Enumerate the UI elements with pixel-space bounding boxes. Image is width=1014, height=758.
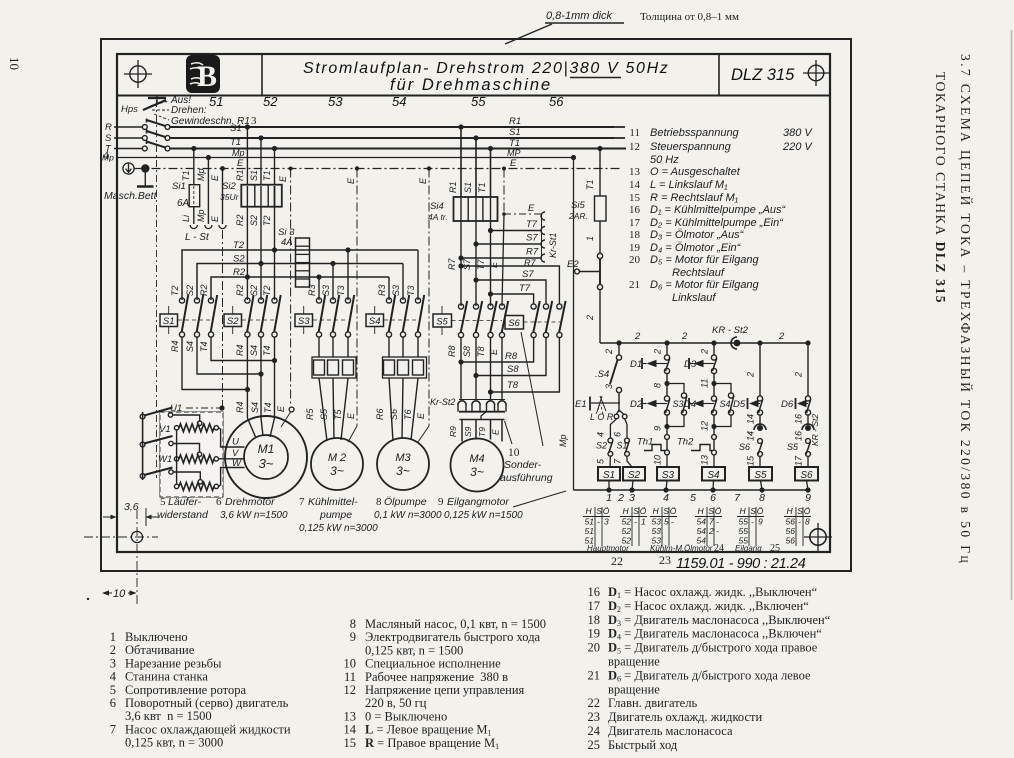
svg-text:S8: S8 [462,346,472,357]
coil S4 to bus [712,481,715,491]
svg-text:17: 17 [629,217,641,229]
contactor coil box S4 (power section) [366,314,384,327]
contactor coil box S3 (power section) [295,314,313,327]
svg-text:1159.01 - 990 : 21.24: 1159.01 - 990 : 21.24 [676,556,806,572]
svg-text:S: S [797,506,803,516]
E drop right of Si4 [502,167,506,171]
svg-text:S7: S7 [522,269,534,280]
svg-text:M1: M1 [258,442,275,456]
control return bus to Mp [574,489,809,491]
svg-text:Станина станка: Станина станка [125,670,208,684]
svg-text:E: E [346,412,356,419]
contactor coil box S2 (power section) [224,314,242,327]
svg-text:S: S [750,506,756,516]
svg-text:.S4: .S4 [595,369,609,380]
svg-text:1: 1 [585,236,595,241]
rotor resistor 2 [179,455,214,463]
svg-text:S9: S9 [463,426,473,437]
svg-text:25: 25 [588,738,601,752]
svg-text:9: 9 [653,426,663,431]
svg-text:W1: W1 [158,454,172,465]
contact S1 pole at x=197 [194,298,199,303]
svg-text:2: 2 [681,331,688,342]
svg-text:Двигатель охлажд. жидкости: Двигатель охлажд. жидкости [608,710,762,724]
svg-text:E: E [276,405,286,412]
svg-text:S: S [663,506,669,516]
wires Si4 outputs down [460,221,462,306]
svg-text:16: 16 [588,585,601,599]
dashed actuator line S6 [524,321,561,323]
motor M3 (Oelpumpe) [377,438,429,490]
registration mark top-left [130,66,146,82]
wires overload to M3 [389,378,393,441]
contact S3 pole at x=333 [330,298,335,303]
svg-text:8: 8 [350,617,356,631]
svg-text:52: 52 [622,526,632,536]
svg-text:1: 1 [641,517,646,527]
LOR contacts [614,414,619,419]
svg-text:51: 51 [585,526,595,536]
svg-text:H: H [787,506,794,516]
thermal element squiggle Th1 [644,445,665,451]
svg-text:S1: S1 [230,123,242,134]
svg-text:T9: T9 [477,427,487,437]
svg-text:S2: S2 [596,441,607,451]
wire T1 down to Si2 [272,146,277,151]
svg-text:R8: R8 [505,351,518,362]
svg-text:S3: S3 [321,285,331,296]
bus R1 [170,126,614,128]
svg-text:D2: D2 [630,399,643,410]
svg-text:D3: D3 [684,359,697,370]
wire Si1 to L-St [193,207,195,224]
svg-text:2: 2 [110,643,116,657]
svg-text:56: 56 [786,526,796,536]
svg-text:16: 16 [794,431,804,441]
bus T8 from S6 [491,338,560,392]
svg-text:0,8-1mm dick: 0,8-1mm dick [546,10,613,22]
logo B mark [186,55,220,93]
wire to coil S2 [627,456,632,467]
junction dot column D3 [711,340,716,345]
Mp drop column [571,155,576,160]
contact S6 pole at x=559.4 [557,304,562,309]
wires buses to contactor S3 [347,250,349,300]
ground MaschBett [144,169,146,187]
bus Mp [170,157,574,159]
fuse block Si2 [241,185,281,207]
E branch to Kr-St1 [502,212,506,216]
wire LOR-L down [610,419,616,438]
coil S6 to bus [807,481,809,491]
svg-text:D₅ = Motor für Eilgang: D₅ = Motor für Eilgang [650,254,760,266]
svg-text:0 = Выключено: 0 = Выключено [365,709,447,723]
svg-text:6: 6 [613,432,623,437]
svg-text:D5: D5 [733,399,746,410]
svg-text:-: - [798,517,801,527]
svg-text:9: 9 [805,492,811,504]
svg-text:Электродвигатель быстрого хода: Электродвигатель быстрого хода [365,630,541,644]
svg-text:вращение: вращение [608,655,660,669]
svg-text:S8: S8 [507,364,519,375]
svg-text:Mp: Mp [102,153,114,163]
wire switch to control bus [599,290,601,343]
wire resistor 2 to V [219,458,245,460]
connector Kr-St2 [459,399,505,401]
svg-text:Steuerspannung: Steuerspannung [650,141,732,153]
svg-text:R1: R1 [448,181,458,193]
svg-text:8: 8 [376,496,382,508]
rotor resistor 1 [179,424,214,432]
svg-text:3.7 СХЕМА ЦЕПЕЙ ТОКА – ТРЕХФАЗ: 3.7 СХЕМА ЦЕПЕЙ ТОКА – ТРЕХФАЗНЫЙ ТОК 22… [958,54,973,565]
svg-text:T2: T2 [262,285,272,296]
svg-text:S6: S6 [508,318,520,329]
svg-text:18: 18 [629,229,641,241]
wires Si2 down to contactor S2 [246,207,248,300]
svg-text:4A: 4A [281,237,293,248]
svg-text:3,6: 3,6 [124,501,139,513]
wires S2 bottom down to motor M1 [246,337,248,418]
leader from note to Eilgangmotor [513,491,566,507]
contact S1 pole at x=211 [208,298,213,303]
svg-text:53: 53 [652,526,662,536]
svg-text:Betriebsspannung: Betriebsspannung [650,127,740,139]
svg-text:3~: 3~ [330,464,344,478]
svg-text:ausführung: ausführung [500,472,553,484]
svg-text:2: 2 [604,349,614,355]
svg-text:Ö: Ö [715,506,722,516]
svg-text:3: 3 [110,656,116,670]
contactor coil box S1 (power section) [160,314,178,327]
svg-text:Сопротивление ротора: Сопротивление ротора [125,683,246,697]
rotor switch contact 3 [140,474,145,479]
svg-text:T1: T1 [262,170,272,181]
svg-text:-: - [671,517,674,527]
svg-text:R = Rechtslauf M₁: R = Rechtslauf M₁ [650,192,739,204]
svg-text:R5: R5 [305,408,315,420]
relay contact KR at D6 [802,424,814,430]
coil box S5 [749,467,772,481]
svg-text:S: S [708,506,714,516]
svg-text:R2: R2 [235,214,245,226]
switch blade S [146,130,148,134]
svg-text:Выключено: Выключено [125,630,188,644]
fuse Si3 ladder [296,238,310,287]
svg-text:Eilgang: Eilgang [735,544,762,553]
svg-text:E: E [346,177,356,184]
svg-text:O = Ausgeschaltet: O = Ausgeschaltet [650,166,741,178]
wire Si5 to switch E2 [599,221,601,253]
svg-text:R1: R1 [509,116,521,127]
wire LOR-R down [625,419,627,438]
coil S1 to bus [608,481,610,491]
svg-text:Mp: Mp [196,168,206,181]
E drop to M3 [427,166,431,170]
svg-text:13: 13 [344,709,357,723]
svg-text:55: 55 [739,517,749,527]
svg-text:4: 4 [110,670,117,684]
jog from Kr-St2 to terminal comb [481,412,486,420]
svg-text:S1: S1 [463,182,473,193]
svg-text:für Drehmaschine: für Drehmaschine [390,76,552,94]
svg-text:54: 54 [697,517,707,527]
svg-text:вращение: вращение [608,682,660,696]
svg-text:8: 8 [805,517,810,527]
svg-text:Rechtslauf: Rechtslauf [672,267,725,279]
svg-text:Ölmotor: Ölmotor [684,544,713,553]
svg-text:E: E [416,412,426,419]
rotor switch contact 1 [140,414,145,419]
svg-text:380 V: 380 V [783,127,813,139]
svg-text:Масляный насос, 0,1 квт, n = 1: Масляный насос, 0,1 квт, n = 1500 [365,617,546,631]
svg-text:2AR.: 2AR. [568,211,588,221]
svg-text:54: 54 [697,526,707,536]
svg-text:Li: Li [181,214,191,222]
svg-text:R7: R7 [447,258,457,270]
svg-text:50 Hz: 50 Hz [650,154,679,166]
bus T1 [170,147,626,149]
svg-text:5: 5 [160,496,166,508]
svg-text:T4: T4 [199,341,209,352]
svg-text:DLZ 315: DLZ 315 [731,66,795,84]
svg-text:S3: S3 [298,316,310,327]
svg-text:14: 14 [629,179,641,191]
wire resistor 1 to U [219,428,245,447]
motor M4 (Eilgangmotor) [451,439,504,492]
svg-text:S4: S4 [720,399,731,409]
svg-text:55: 55 [471,94,486,109]
bus S8 from S6 [476,338,546,376]
svg-text:Mp: Mp [196,209,206,222]
coil box S1 [598,467,620,481]
leader line from note to frame [505,24,552,44]
rotor resistor dashed box [160,412,223,497]
svg-text:2: 2 [585,315,595,321]
svg-text:S5: S5 [436,317,448,328]
mechanical link dash line [156,100,158,250]
svg-text:Masch.Bett: Masch.Bett [104,190,158,202]
svg-text:5: 5 [110,683,116,697]
inner drawing frame [117,54,830,552]
svg-text:14: 14 [344,723,357,737]
svg-text:D₄ = Ölmotor „Ein“: D₄ = Ölmotor „Ein“ [650,242,742,254]
wires overload to M2 [319,378,327,441]
contact S5 pole at x=502 [499,304,504,309]
svg-text:-: - [716,526,719,536]
svg-text:S4: S4 [250,402,260,413]
svg-text:Ö: Ö [603,506,610,516]
svg-text:0,125 kW n=1500: 0,125 kW n=1500 [444,510,523,521]
rotor short-circuit switch bar [142,412,144,480]
wire to coil below D6 [807,457,809,467]
svg-text:Drehmotor: Drehmotor [225,496,275,508]
junction dot column D5 [757,340,762,345]
svg-text:S4: S4 [185,341,195,352]
svg-text:17: 17 [588,599,601,613]
svg-text:D₂ = Kühlmittelpumpe „Ein“: D₂ = Kühlmittelpumpe „Ein“ [650,217,784,229]
svg-text:S6: S6 [739,442,750,452]
tap S7 to Kr-St1 [473,241,478,246]
svg-text:M4: M4 [469,453,484,465]
svg-text:56: 56 [549,94,564,109]
svg-text:S1: S1 [603,470,615,481]
svg-text:E: E [491,429,501,435]
svg-text:-: - [716,517,719,527]
main switch Hps handle [148,97,166,99]
svg-text:V1: V1 [159,424,171,435]
svg-text:R7: R7 [524,258,536,268]
svg-text:T3: T3 [336,285,346,296]
svg-text:S6: S6 [800,470,813,481]
svg-text:25: 25 [770,543,780,554]
wire S4 from S1 [197,337,261,374]
svg-text:Läufer-: Läufer- [168,496,202,508]
svg-text:Поворотный (серво) двигатель: Поворотный (серво) двигатель [125,696,289,710]
svg-text:T5: T5 [333,409,343,420]
motor M2 (Kuehlmittelpumpe) [311,438,363,490]
svg-text:24: 24 [588,724,601,738]
svg-text:Специальное исполнение: Специальное исполнение [365,657,501,671]
svg-text:11: 11 [700,379,710,388]
svg-text:R2: R2 [235,284,245,296]
svg-text:2: 2 [617,492,624,504]
svg-text:S: S [596,506,602,516]
svg-text:S3: S3 [391,285,401,296]
svg-text:5: 5 [690,492,696,504]
contact S3 pole at x=319 [316,298,321,303]
svg-text:S1: S1 [163,316,175,327]
wire to coil below Th2 [713,455,715,467]
svg-text:D₆ = Motor für Eilgang: D₆ = Motor für Eilgang [650,279,760,291]
center mark circle [131,531,142,542]
svg-text:R2: R2 [199,284,209,296]
svg-text:S3: S3 [673,399,684,409]
dashed actuator line S4 [384,319,418,321]
svg-text:E: E [489,261,499,268]
svg-text:20: 20 [588,641,601,655]
contact S4 pole at x=403 [400,298,405,303]
svg-text:Быстрый ход: Быстрый ход [608,738,678,752]
svg-text:19: 19 [588,627,601,641]
svg-text:Обтачивание: Обтачивание [125,643,195,657]
svg-text:R8: R8 [447,345,457,357]
junction dot col A [616,340,621,345]
svg-text:D₁ = Kühlmittelpumpe „Aus“: D₁ = Kühlmittelpumpe „Aus“ [650,204,787,216]
contact S3 pole at x=348 [345,298,350,303]
svg-text:5: 5 [664,517,669,527]
dashed actuator line S3 [313,319,348,321]
switch blade T [146,140,148,144]
svg-text:4: 4 [596,432,606,437]
svg-text:KR - St2: KR - St2 [712,325,749,336]
svg-text:B: B [197,60,217,93]
svg-text:D1 = Насос охлажд. жидк. ,,Вык: D1 = Насос охлажд. жидк. ,,Выключен“ [608,585,818,600]
svg-text:56: 56 [786,536,796,546]
svg-text:0,125 kW n=3000: 0,125 kW n=3000 [299,523,378,534]
svg-text:H: H [586,506,593,516]
svg-text:H: H [698,506,705,516]
wire R1 down to Si2 [245,124,250,129]
tap R7 to Kr-St1 [458,255,463,260]
svg-text:S2: S2 [185,285,195,296]
svg-text:52: 52 [622,517,632,527]
svg-text:D4: D4 [684,399,696,410]
svg-text:T7: T7 [476,259,486,270]
svg-text:Рабочее напряжение 380 в: Рабочее напряжение 380 в [365,670,508,684]
svg-text:11: 11 [629,127,640,139]
svg-text:3: 3 [604,517,609,527]
coil S5 to bus [761,481,763,491]
connector Kr-St1 frame line [541,214,543,258]
svg-text:16: 16 [629,204,641,216]
relay contact KR at D5 [754,424,766,430]
fuse block Si4 [454,197,498,221]
thermal element squiggle Th2 [691,445,712,451]
wire to coil below D5 [759,457,761,467]
svg-text:6: 6 [710,492,716,504]
svg-text:R1: R1 [235,169,245,181]
svg-text:D6: D6 [781,399,794,410]
svg-text:Eilgangmotor: Eilgangmotor [447,496,509,508]
svg-text:Drehen:: Drehen: [171,105,207,116]
svg-text:Si4: Si4 [430,201,444,212]
svg-text:13: 13 [700,455,710,465]
svg-text:S: S [105,133,112,144]
contactor coil box S6 (power) [505,316,524,330]
svg-text:D1: D1 [630,359,642,370]
svg-text:Нарезание резьбы: Нарезание резьбы [125,656,222,670]
svg-text:2: 2 [778,331,785,342]
title block divider right [718,54,720,96]
svg-text:8: 8 [653,383,663,388]
svg-text:Mp: Mp [232,148,245,158]
svg-text:12: 12 [700,421,710,431]
svg-text:Двигатель маслонасоса: Двигатель маслонасоса [608,724,733,738]
svg-text:6: 6 [216,496,222,508]
svg-text:1: 1 [606,492,612,504]
svg-text:9: 9 [350,630,356,644]
svg-text:Kr-St1: Kr-St1 [548,233,558,258]
tap T7 to Kr-St1 [488,228,493,233]
svg-text:3: 3 [629,492,635,504]
terminal comb R9 S9 T9 E [460,419,505,421]
coil S2 to bus [632,481,633,491]
svg-text:R6: R6 [375,408,385,420]
svg-text:3~: 3~ [259,456,274,471]
svg-text:T6: T6 [403,409,413,420]
svg-text:S2: S2 [249,215,259,226]
svg-text:3: 3 [604,384,614,389]
svg-text:10: 10 [653,455,663,465]
svg-text:T2: T2 [170,285,180,296]
svg-text:Si2: Si2 [222,181,236,192]
stray dot [87,598,89,600]
svg-text:Ö: Ö [804,506,811,516]
wire and label 2 col A [618,343,620,355]
contact S1 pole at x=182 [179,298,184,303]
svg-text:S4: S4 [707,470,720,481]
svg-text:Th2: Th2 [677,437,694,448]
motor M1 (Drehmotor) [225,416,307,498]
svg-text:S4: S4 [369,316,381,327]
wires S5 poles down to Kr-St2 [460,338,462,399]
svg-text:22: 22 [611,554,623,568]
svg-text:T7: T7 [519,283,531,294]
bus T7 to S6 [488,291,493,296]
junction dot column D6 [805,340,810,345]
svg-text:H: H [653,506,660,516]
svg-text:M3: M3 [395,452,411,464]
